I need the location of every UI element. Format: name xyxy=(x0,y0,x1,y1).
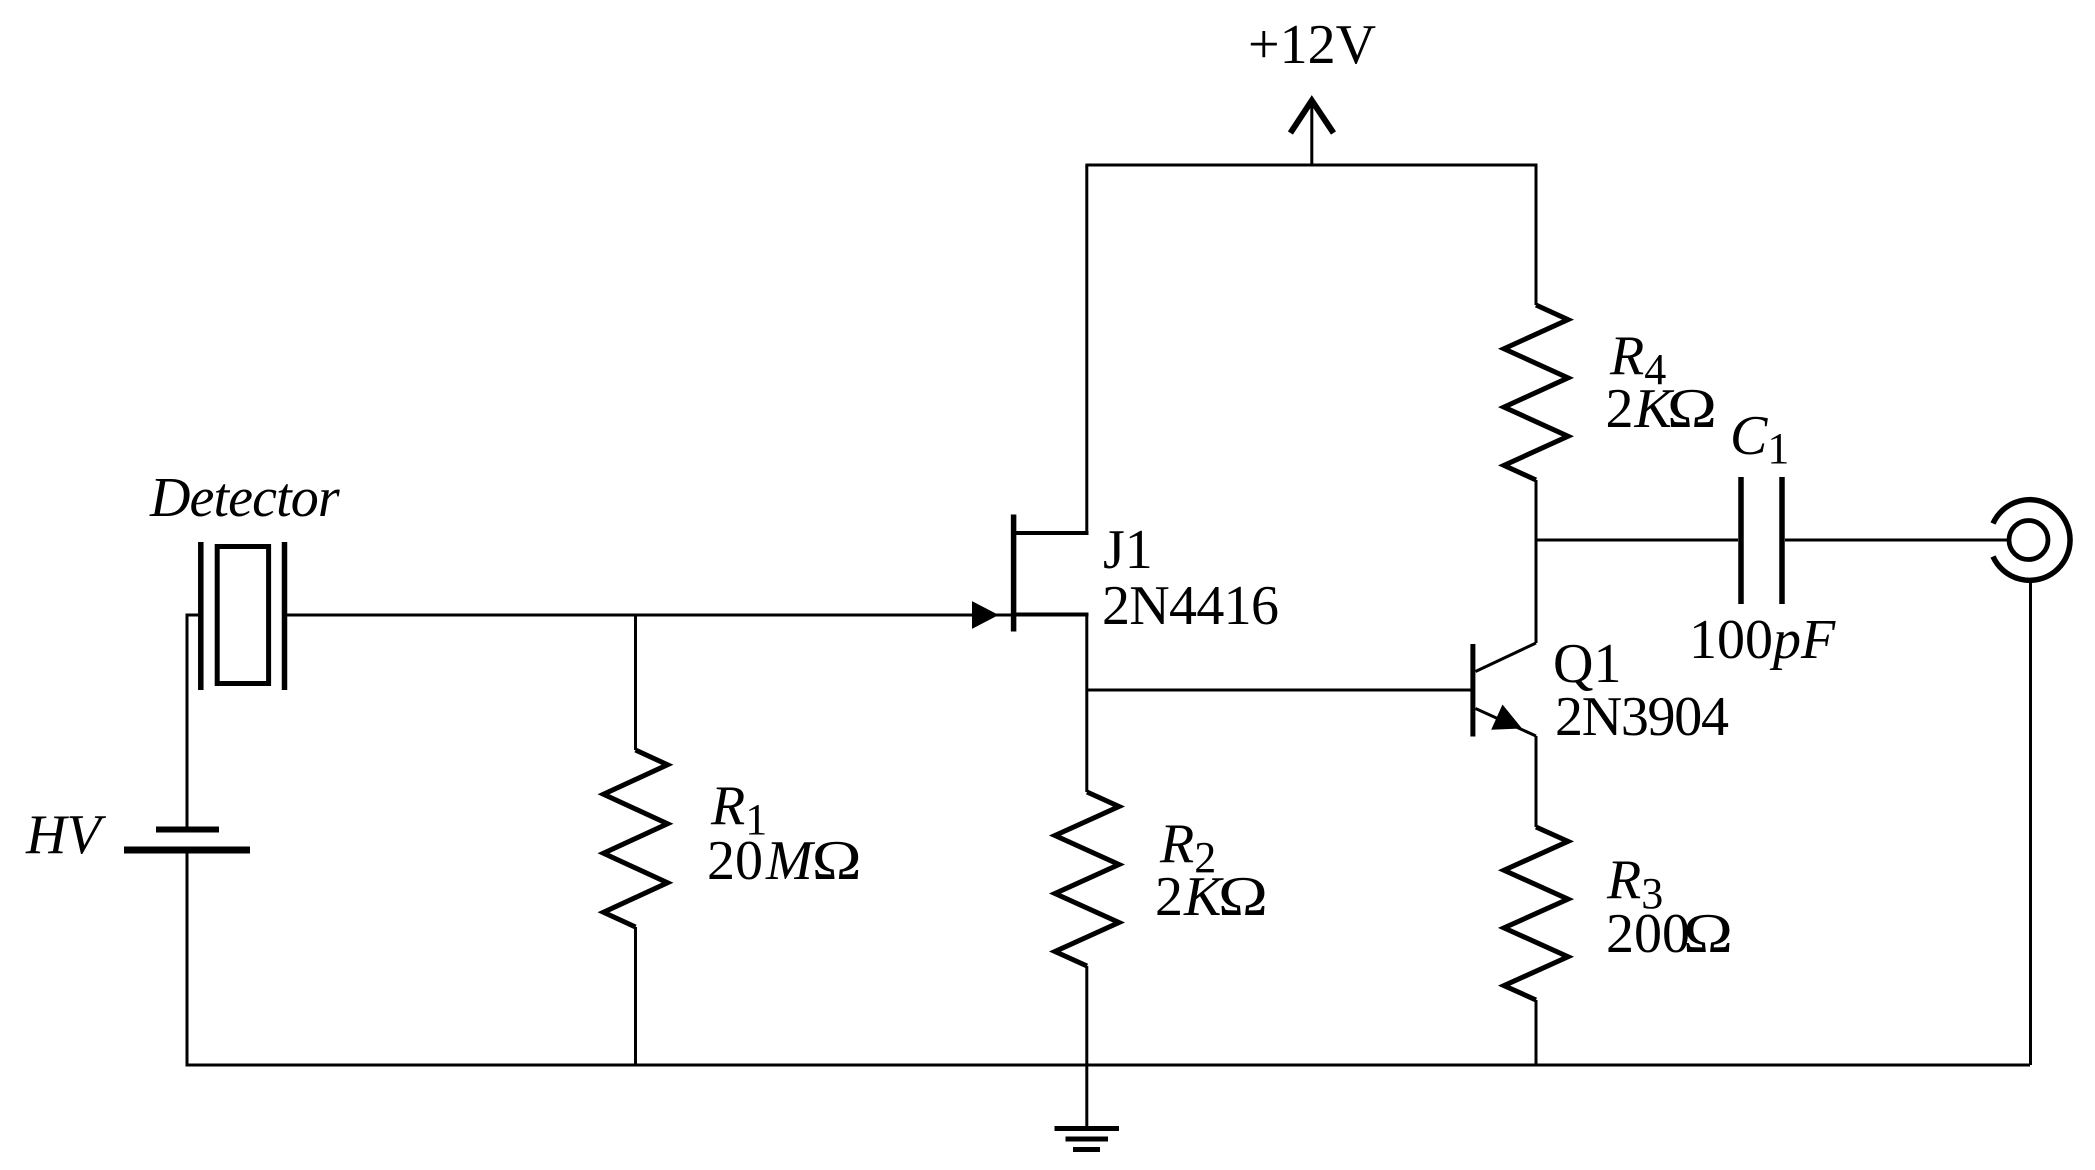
wire ground stem xyxy=(1085,1065,1088,1128)
capacitor C1 left plate xyxy=(1738,477,1744,604)
connector outer arc xyxy=(1993,500,2070,581)
svg-text:2N4416: 2N4416 xyxy=(1102,575,1278,637)
transistor Q1 emitter lead xyxy=(1476,709,1537,737)
resistor R4 zigzag xyxy=(1504,305,1568,480)
wire output node to C1 xyxy=(1535,539,1739,542)
wire R4 bottom to output node xyxy=(1535,480,1538,540)
transistor Q1 base bar xyxy=(1470,644,1475,737)
transistor J1 drain lead xyxy=(1014,531,1089,535)
wire C1 to connector xyxy=(1785,539,2009,542)
ground bar 1 xyxy=(1055,1126,1120,1131)
detector crystal right plate xyxy=(282,542,288,690)
svg-text:2K: 2K xyxy=(1606,378,1675,440)
svg-text:HV: HV xyxy=(25,804,106,866)
svg-text:Ω: Ω xyxy=(1683,903,1733,965)
transistor J1 channel bar xyxy=(1011,515,1017,632)
svg-text:200: 200 xyxy=(1606,903,1690,965)
resistor R1 zigzag xyxy=(604,750,668,927)
svg-text:Ω: Ω xyxy=(1218,866,1268,928)
detector crystal body rectangle xyxy=(217,547,268,684)
wire connector down xyxy=(2029,581,2032,1065)
power +12V arrow stem xyxy=(1310,101,1313,165)
wire detector to JFET gate xyxy=(287,614,1012,617)
svg-text:2N3904: 2N3904 xyxy=(1555,686,1729,748)
wire R4 top xyxy=(1535,164,1538,306)
wire J1 drain to top rail xyxy=(1085,165,1088,534)
ground bar 2 xyxy=(1066,1137,1109,1142)
wire detector left stub xyxy=(186,614,199,617)
wire Q1 emitter to R3 xyxy=(1535,736,1538,827)
svg-text:Ω: Ω xyxy=(1667,378,1717,440)
wire base from J1 source node to Q1 xyxy=(1087,689,1472,692)
detector crystal left plate xyxy=(198,542,204,690)
svg-text:Ω: Ω xyxy=(812,830,862,892)
svg-text:2K: 2K xyxy=(1155,866,1224,928)
svg-text:Detector: Detector xyxy=(149,467,340,529)
transistor Q1 collector lead xyxy=(1476,643,1537,672)
svg-text:J1: J1 xyxy=(1103,519,1153,581)
resistor R3 zigzag xyxy=(1504,827,1568,1000)
capacitor C1 right plate xyxy=(1779,477,1785,604)
transistor Q1 emitter arrowhead xyxy=(1492,706,1521,730)
wire left vertical battery to bottom rail xyxy=(186,853,189,1067)
wire R1 tap vertical top xyxy=(634,615,637,750)
ground bar 3 xyxy=(1073,1147,1100,1152)
battery HV bottom plate xyxy=(124,847,250,854)
transistor J1 gate arrow xyxy=(973,602,998,628)
wire Q1 collector up to output node xyxy=(1535,540,1538,643)
power +12V arrowhead chevron xyxy=(1290,101,1333,134)
svg-text:+12V: +12V xyxy=(1248,14,1376,76)
svg-text:20M: 20M xyxy=(707,830,816,892)
wire R3 bottom to rail xyxy=(1535,1000,1538,1065)
battery HV top plate xyxy=(156,827,219,833)
wire top rail xyxy=(1085,164,1536,167)
wire R1 bottom xyxy=(634,927,637,1065)
transistor J1 source lead xyxy=(1014,613,1089,617)
wire left vertical from detector to battery xyxy=(186,615,189,827)
svg-text:100pF: 100pF xyxy=(1689,609,1836,671)
wire J1 source down to R2 xyxy=(1085,615,1088,792)
resistor R2 zigzag xyxy=(1055,792,1119,966)
wire R2 bottom to rail xyxy=(1085,966,1088,1065)
wire bottom rail xyxy=(187,1064,2030,1067)
connector inner circle xyxy=(2009,521,2048,560)
